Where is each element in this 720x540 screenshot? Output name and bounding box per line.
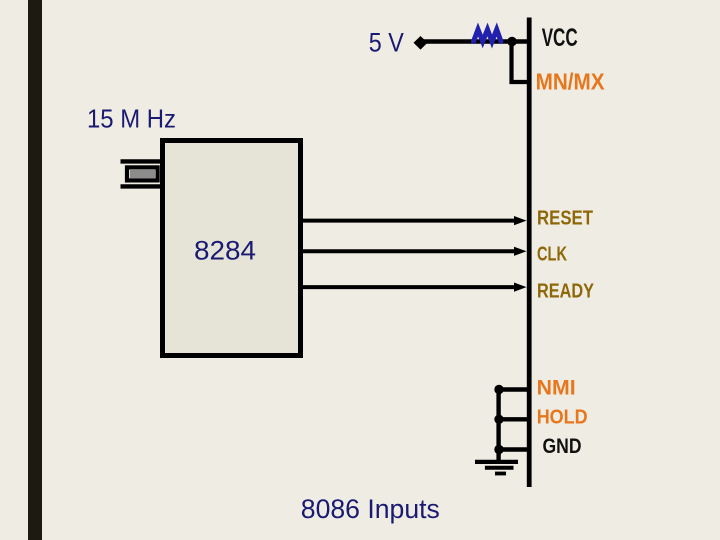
svg-text:CLK: CLK	[537, 243, 567, 265]
svg-text:RESET: RESET	[537, 208, 593, 230]
svg-text:15 M Hz: 15 M Hz	[87, 104, 176, 134]
svg-text:HOLD: HOLD	[537, 406, 588, 428]
svg-text:VCC: VCC	[542, 24, 578, 52]
svg-text:READY: READY	[537, 280, 595, 302]
svg-text:MN/MX: MN/MX	[536, 68, 606, 94]
svg-text:NMI: NMI	[537, 376, 576, 399]
svg-text:8086 Inputs: 8086 Inputs	[301, 494, 440, 524]
svg-text:5 V: 5 V	[369, 27, 404, 57]
svg-text:GND: GND	[543, 435, 582, 458]
svg-text:8284: 8284	[194, 235, 256, 265]
